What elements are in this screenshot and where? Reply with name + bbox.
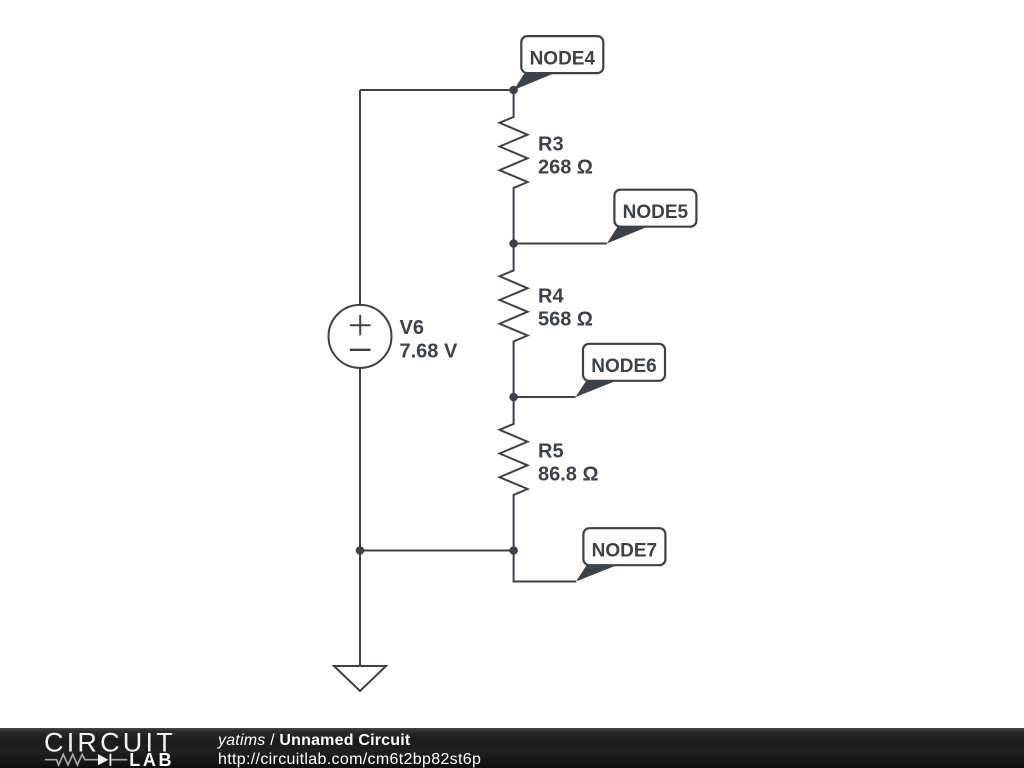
node NODE6 flag bbox=[576, 344, 666, 397]
wire NODE5 stub bbox=[514, 243, 607, 245]
junction dot node4 bbox=[509, 86, 518, 95]
wire NODE7 stub bbox=[514, 551, 576, 582]
wire NODE6 stub bbox=[514, 396, 576, 398]
svg-text:R5: R5 bbox=[538, 441, 564, 463]
footer logo diode cathode bar bbox=[110, 754, 112, 766]
resistor R3 bbox=[500, 90, 528, 244]
svg-text:R4: R4 bbox=[538, 286, 564, 308]
footer logo zigzag wire bbox=[45, 754, 128, 765]
svg-text:86.8 Ω: 86.8 Ω bbox=[538, 464, 599, 486]
svg-text:NODE7: NODE7 bbox=[592, 541, 657, 562]
svg-text:268 Ω: 268 Ω bbox=[538, 157, 593, 179]
wire top horizontal bbox=[360, 89, 514, 91]
node NODE5 flag bbox=[607, 190, 697, 244]
svg-text:NODE6: NODE6 bbox=[591, 356, 656, 377]
node NODE7 flag bbox=[576, 528, 665, 581]
wire left rail lower bbox=[359, 368, 361, 551]
svg-text:http://circuitlab.com/cm6t2bp8: http://circuitlab.com/cm6t2bp82st6p bbox=[218, 751, 481, 768]
junction dot left bottom bbox=[356, 546, 365, 555]
svg-text:NODE5: NODE5 bbox=[623, 202, 689, 223]
junction dot node5 bbox=[509, 239, 518, 248]
ground bbox=[334, 666, 386, 691]
svg-text:V6: V6 bbox=[400, 317, 424, 339]
V6 plus sign bbox=[350, 315, 371, 335]
node NODE4 flag bbox=[514, 36, 604, 90]
junction dot node6 bbox=[509, 393, 518, 402]
wire ground stub bbox=[359, 551, 361, 667]
svg-text:R3: R3 bbox=[538, 134, 564, 156]
svg-text:7.68 V: 7.68 V bbox=[400, 341, 458, 363]
svg-text:NODE4: NODE4 bbox=[530, 48, 596, 69]
wire bottom horizontal bbox=[360, 550, 514, 552]
junction dot node7 bbox=[509, 546, 518, 555]
svg-text:LAB: LAB bbox=[129, 750, 174, 768]
footer logo diode triangle bbox=[98, 754, 109, 765]
wire left rail upper bbox=[359, 90, 361, 305]
V6 minus sign bbox=[350, 349, 371, 351]
resistor R5 bbox=[500, 397, 528, 551]
svg-text:568 Ω: 568 Ω bbox=[538, 309, 593, 331]
footer bar bbox=[0, 728, 1024, 768]
voltage source V6 bbox=[329, 305, 392, 368]
svg-text:yatims / Unnamed Circuit: yatims / Unnamed Circuit bbox=[217, 732, 411, 749]
resistor R4 bbox=[500, 244, 528, 398]
